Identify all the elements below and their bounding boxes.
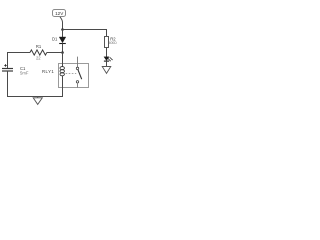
node A junction dot (61, 28, 64, 31)
wire R1 left lead (7, 52, 30, 54)
svg-text:22: 22 (36, 55, 41, 60)
node V1 12V supply label (53, 10, 66, 17)
resistor R1 (30, 50, 47, 55)
wire bottom net (7, 96, 63, 98)
relay switch bottom pin stub (77, 83, 79, 88)
wire R1 right lead to node B (47, 52, 63, 54)
wire LED cathode to ground (106, 61, 108, 66)
svg-text:12V: 12V (55, 11, 64, 16)
relay switch arm (78, 70, 82, 79)
wire diode cathode to node B (62, 44, 64, 53)
capacitor C1 (2, 64, 13, 71)
svg-text:600Ω: 600Ω (109, 41, 117, 45)
relay switch bottom contact (76, 81, 78, 83)
diode D1 (59, 37, 66, 44)
ground (below LED) (102, 67, 111, 74)
node B junction dot (61, 51, 64, 54)
wire relay coil top pin (62, 53, 64, 67)
svg-text:D1: D1 (52, 36, 58, 41)
svg-text:R1: R1 (36, 44, 42, 49)
wire from 12V label down to node A (60, 17, 63, 30)
wire node A to R2 top (63, 30, 107, 37)
relay switch top contact (76, 67, 78, 69)
ground (bottom left) (33, 97, 42, 105)
wire C1 top lead (7, 52, 9, 69)
svg-text:RLY1: RLY1 (42, 69, 54, 74)
relay RLY1 box (59, 64, 89, 88)
svg-text:5mF: 5mF (20, 70, 29, 75)
wire relay coil bottom pin (62, 76, 64, 97)
wire diode anode (62, 30, 64, 38)
relay coil (60, 67, 64, 76)
LED D2 (104, 57, 113, 62)
relay switch top pin stub (77, 57, 79, 68)
wire R2 bottom to LED (106, 48, 108, 58)
resistor R2 (105, 37, 109, 48)
dashed actuator link (66, 73, 77, 75)
wire C1 bottom lead (7, 71, 9, 97)
